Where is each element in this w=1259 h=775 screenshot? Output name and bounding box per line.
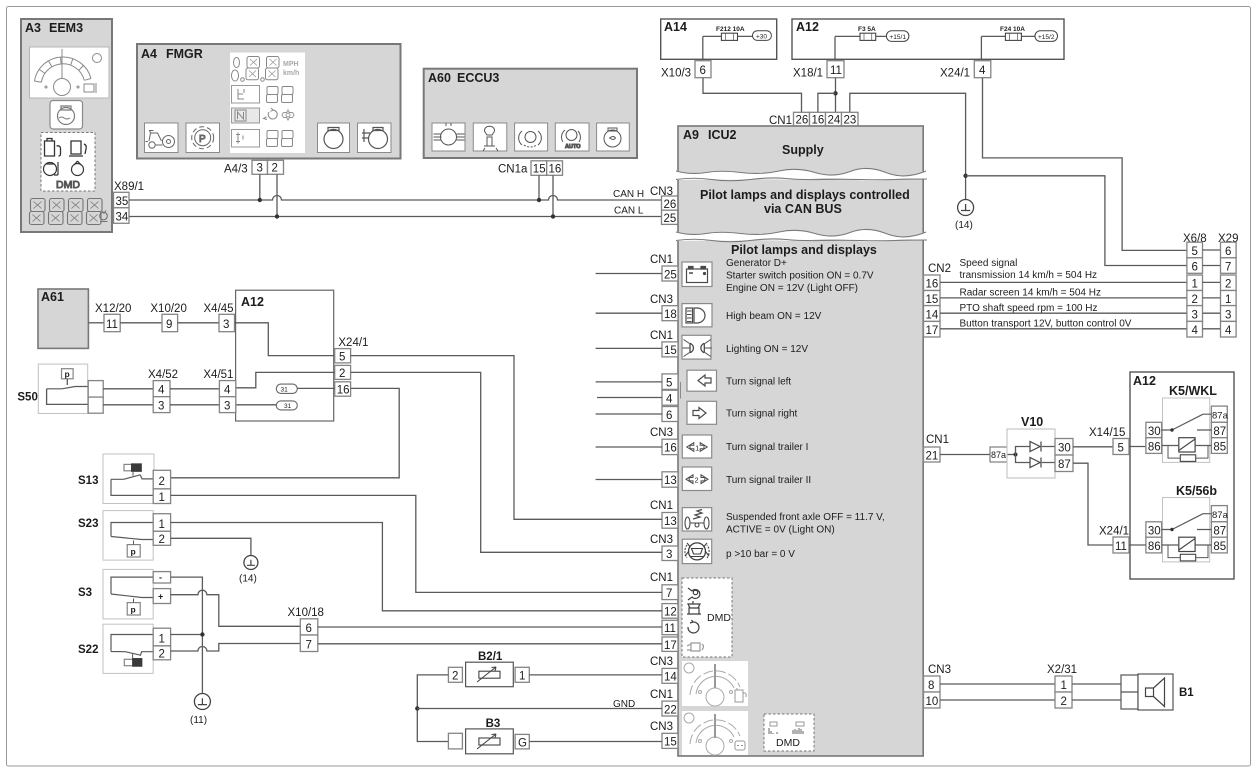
svg-text:7: 7 [306, 640, 312, 652]
relay cell frame [1163, 398, 1210, 462]
svg-text:B3: B3 [486, 718, 501, 730]
tear band 1 [676, 168, 926, 181]
parallel resistor [1180, 554, 1195, 561]
svg-text:X4/51: X4/51 [203, 369, 233, 381]
svg-text:F24 10A: F24 10A [1000, 26, 1025, 33]
wire X2/31-1 to B1 [1072, 683, 1121, 685]
B3 connector box [448, 733, 462, 749]
wire S22-1 to ground line [171, 634, 203, 636]
svg-text:16: 16 [926, 279, 939, 291]
svg-text:Generator D+: Generator D+ [726, 258, 787, 269]
pin 30 [1146, 522, 1162, 537]
X6/8 pin 3 [1187, 306, 1203, 322]
S23 contact [111, 523, 153, 540]
svg-text:3: 3 [223, 319, 229, 331]
CN1 pin 25 battery [662, 266, 678, 281]
svg-text:87: 87 [1213, 426, 1226, 438]
wire X24/1-16 to S13-2 [171, 388, 400, 477]
svg-text:CN1: CN1 [650, 254, 673, 266]
X2/31 pin 2 [1055, 692, 1072, 708]
S13 pin 2 [153, 470, 170, 489]
svg-text:CN1: CN1 [650, 330, 673, 342]
junction on pin24 wire [833, 91, 837, 95]
suspended axle icon [682, 508, 711, 531]
svg-text:A12: A12 [796, 20, 819, 34]
S3 pin minus [153, 572, 170, 583]
svg-text:26: 26 [796, 115, 809, 127]
junction A4/3-3 [258, 198, 262, 202]
svg-text:+15/2: +15/2 [1038, 34, 1055, 41]
S50 switch contact [47, 387, 89, 389]
svg-text:DMD: DMD [707, 612, 731, 624]
wire X18/1-11 down to CN1-24 [835, 78, 837, 113]
wire to CN1-25 [596, 273, 662, 275]
svg-text:6: 6 [666, 410, 672, 422]
wire X4/52 to X4/51 [170, 389, 219, 405]
wire CN2-16 to X6/8-1 [940, 281, 1187, 283]
A3 DMD dashed box [41, 133, 95, 192]
ground symbol (14) top [958, 200, 974, 216]
branch right to X6/8-6 [966, 176, 1187, 266]
svg-text:(14): (14) [239, 574, 257, 585]
svg-text:15: 15 [664, 737, 677, 749]
wire S13-1 to CN1-7 [171, 495, 662, 592]
X4/45 pin 3 [219, 314, 235, 331]
fuel gauge display [682, 661, 748, 706]
X10/3 pin 6 [695, 61, 711, 78]
svg-text:A12: A12 [241, 295, 264, 309]
svg-text:X24/1: X24/1 [338, 337, 368, 349]
svg-text:10: 10 [926, 696, 939, 708]
svg-text:transmission 14 km/h = 504 Hz: transmission 14 km/h = 504 Hz [960, 270, 1098, 281]
sensor B3 body [466, 729, 514, 754]
sensor B2/1 body [466, 662, 514, 687]
svg-text:4: 4 [1192, 325, 1199, 337]
wire S22-2 to X10/18-7 [171, 644, 301, 652]
wire CN1a-15 to CAN H [538, 175, 540, 200]
S22 pin 2 [153, 646, 170, 660]
svg-text:25: 25 [664, 270, 677, 282]
relay box A12 left [236, 290, 334, 421]
CN1a pin 16 [547, 161, 563, 176]
svg-text:ACTIVE = 0V (Light ON): ACTIVE = 0V (Light ON) [726, 525, 835, 536]
S23 p symbol [127, 545, 140, 557]
A4 tractor icon box [145, 123, 179, 153]
wire X24/1-11 to 86 [1129, 544, 1146, 546]
svg-text:24: 24 [828, 115, 841, 127]
CN3 pin 18 [662, 306, 678, 321]
A3 coolant icon box [50, 101, 83, 130]
pressure switch S50 [17, 364, 88, 413]
wire to CN3-18 [596, 312, 662, 314]
wire to pin 6 [596, 413, 662, 415]
wire B3-G to CN3-15 [529, 741, 662, 743]
CN1 pin 7 [662, 585, 678, 600]
svg-text:A14: A14 [664, 20, 687, 34]
X89/1 pin 34 [114, 208, 130, 224]
svg-text:P: P [199, 134, 206, 145]
pin 87 [1211, 422, 1227, 437]
svg-text:S22: S22 [78, 644, 98, 656]
svg-text:CN2: CN2 [928, 263, 951, 275]
svg-text:87a: 87a [1212, 510, 1229, 521]
svg-text:via CAN BUS: via CAN BUS [764, 202, 842, 216]
svg-text:86: 86 [1148, 441, 1161, 453]
svg-text:X24/1: X24/1 [1099, 526, 1129, 538]
wire B2/1-1 to CN3-14 [529, 674, 662, 676]
CN3 pin 10 [924, 692, 941, 708]
svg-text:1: 1 [1061, 680, 1067, 692]
svg-text:6: 6 [700, 65, 706, 77]
svg-text:G: G [518, 737, 527, 749]
CN1a pin 15 [531, 161, 547, 176]
svg-text:DMD: DMD [56, 179, 80, 191]
svg-text:23: 23 [844, 115, 857, 127]
svg-text:K5/WKL: K5/WKL [1169, 384, 1217, 398]
display module A4 [137, 44, 401, 159]
svg-text:km/h: km/h [283, 70, 299, 77]
CN3 pin 25 [662, 210, 679, 224]
CAN H wire [129, 196, 662, 200]
wire X10/18-7 to CN1-17 [318, 643, 662, 645]
svg-text:-: - [159, 572, 162, 582]
ECU block A3 [21, 19, 112, 232]
X89/1 pin 35 [114, 192, 130, 208]
+15/1 terminal [886, 31, 909, 42]
temp gauge display [682, 711, 748, 755]
S50 connector box upper [88, 381, 103, 398]
X29 pin 6 [1221, 242, 1237, 258]
svg-text:MPH: MPH [283, 61, 299, 68]
svg-text:6: 6 [1192, 262, 1198, 274]
svg-text:16: 16 [812, 115, 825, 127]
CN2 pin 14 [924, 306, 941, 322]
svg-text:X10/3: X10/3 [661, 68, 691, 80]
svg-text:2: 2 [159, 649, 165, 661]
svg-text:6: 6 [1225, 246, 1231, 258]
S50 connector box lower [88, 397, 103, 413]
branch to CN1-16 [818, 93, 836, 112]
B2/1 thermistor symbol [479, 671, 500, 678]
tear band 2 [676, 229, 926, 242]
svg-text:+30: +30 [756, 34, 767, 41]
svg-text:2: 2 [1061, 696, 1067, 708]
B1 connector cells [1121, 675, 1138, 709]
wire pin2 internal jog to X4/51-4 [235, 372, 335, 387]
oval 31 b [276, 401, 297, 410]
svg-text:CAN H: CAN H [613, 189, 644, 200]
svg-text:16: 16 [337, 384, 350, 396]
relay box A12 right [1130, 372, 1234, 579]
svg-text:AUTO: AUTO [565, 144, 581, 150]
junction S22-1 ground [200, 632, 204, 636]
fuse box A14 [661, 19, 777, 59]
X24/1 pin 5 [335, 349, 351, 363]
wire V10-87 down to X24/1-11 [1073, 463, 1113, 545]
S3 p symbol [127, 603, 140, 615]
pin 86 [1146, 537, 1162, 553]
svg-text:K5/56b: K5/56b [1176, 484, 1217, 498]
svg-text:16: 16 [549, 164, 562, 176]
relay coil [1179, 438, 1195, 452]
svg-text:86: 86 [1148, 541, 1161, 553]
svg-text:87: 87 [1213, 525, 1226, 537]
svg-text:ICU2: ICU2 [708, 128, 737, 142]
svg-text:S50: S50 [17, 392, 37, 404]
CN3 pin 8 [924, 676, 941, 692]
svg-text:5: 5 [666, 378, 672, 390]
svg-text:B1: B1 [1179, 687, 1194, 699]
wire X2/31-2 to B1 [1072, 699, 1121, 701]
DMD dashed box [682, 578, 732, 657]
wire to pin 13 [596, 479, 662, 481]
battery icon [682, 262, 712, 287]
A4 lamp icon box 2 [358, 123, 392, 153]
svg-text:A9: A9 [683, 128, 699, 142]
X24/1 pin 16 [335, 382, 351, 396]
svg-text:16: 16 [664, 443, 677, 455]
svg-text:85: 85 [1213, 441, 1226, 453]
svg-text:X89/1: X89/1 [114, 181, 144, 193]
svg-text:Supply: Supply [782, 143, 824, 157]
wire CN1-23 up right to ground and X6/8 [850, 93, 966, 200]
CN3 pin 26 [662, 196, 679, 210]
X24/1 pin 2 [335, 365, 351, 379]
CN3 pin 15 [662, 733, 678, 748]
junction CN1a-15 [537, 198, 541, 202]
CN1 pin 16 [810, 112, 826, 126]
svg-text:X10/18: X10/18 [288, 607, 324, 619]
svg-text:30: 30 [1148, 426, 1161, 438]
svg-text:13: 13 [664, 475, 677, 487]
pin 4 [662, 390, 678, 405]
A4/3 pin 3 [252, 160, 268, 174]
svg-text:14: 14 [926, 309, 939, 321]
svg-text:21: 21 [926, 450, 939, 462]
wire A61 to X12/20 [88, 322, 104, 324]
V10 outline [1007, 429, 1055, 478]
svg-text:3: 3 [257, 163, 263, 175]
pin 87a [1211, 506, 1227, 522]
wire F24 to X24/1 pin 4 [980, 36, 982, 60]
svg-text:S13: S13 [78, 475, 98, 487]
svg-text:11: 11 [106, 319, 118, 331]
svg-text:2: 2 [452, 671, 458, 683]
svg-text:85: 85 [1213, 541, 1226, 553]
S23 pin 1 [153, 514, 170, 532]
svg-text:15: 15 [926, 294, 939, 306]
svg-text:A60: A60 [428, 71, 451, 85]
CN1 pin 21 [924, 447, 941, 462]
svg-text:S23: S23 [78, 518, 98, 530]
svg-text:87: 87 [1058, 459, 1071, 471]
svg-text:11: 11 [830, 65, 842, 77]
svg-text:(14): (14) [955, 220, 973, 231]
svg-text:1: 1 [519, 671, 525, 683]
X29 pin 2 [1221, 275, 1237, 291]
ground symbol (14) left [244, 556, 258, 570]
switch blade 30-87a [1162, 514, 1212, 530]
diode 1 [1030, 442, 1041, 452]
svg-text:p: p [131, 605, 136, 615]
A3 gauge display [30, 47, 110, 98]
X29 pin 1 [1221, 291, 1237, 306]
DMD dashed box 2 [764, 714, 814, 751]
speaker B1 body [1138, 674, 1173, 710]
S22 lamp icon [124, 659, 133, 665]
S50 p symbol [62, 369, 74, 379]
svg-text:35: 35 [116, 196, 129, 208]
A4 central display [230, 53, 305, 154]
svg-text:X24/1: X24/1 [940, 68, 970, 80]
pin 5 turn left [662, 374, 678, 390]
svg-text:87a: 87a [1212, 411, 1229, 422]
wire CN1-21 to 87a [940, 454, 990, 456]
svg-text:FMGR: FMGR [166, 47, 203, 61]
hazard switch S13 [78, 454, 154, 504]
X10/20 pin 9 [162, 314, 178, 331]
X29 pin 4 [1221, 321, 1237, 337]
CN1 pin 12 [662, 604, 678, 619]
wire X4/51-3 to oval31b [235, 404, 277, 406]
pin 87 [1211, 522, 1227, 537]
svg-text:Speed signal: Speed signal [960, 258, 1018, 269]
svg-text:1: 1 [159, 519, 165, 531]
pin 6 [662, 407, 678, 422]
svg-text:13: 13 [664, 516, 677, 528]
svg-text:F3 5A: F3 5A [858, 26, 876, 33]
CN2 pin 15 [924, 291, 941, 306]
svg-text:3: 3 [224, 401, 230, 413]
svg-text:87a: 87a [991, 450, 1006, 460]
wire CN3-10 to X2/31-2 [940, 699, 1055, 701]
wire A4/3-3 to CAN H [259, 174, 261, 200]
svg-text:X12/20: X12/20 [95, 303, 131, 315]
X4/52 pin 3 [153, 397, 170, 413]
svg-text:15: 15 [533, 164, 546, 176]
svg-text:X10/20: X10/20 [150, 303, 186, 315]
svg-text:+15/1: +15/1 [890, 34, 907, 41]
svg-text:15: 15 [664, 345, 677, 357]
svg-text:CN1: CN1 [926, 434, 949, 446]
svg-text:30: 30 [1058, 443, 1071, 455]
wire 11 to 9 [120, 322, 162, 324]
X29 pin 7 [1221, 258, 1237, 274]
relay coil [1179, 537, 1195, 551]
CN1 pin 26 [794, 112, 810, 126]
svg-text:A12: A12 [1133, 374, 1156, 388]
ground symbol (11) [194, 694, 210, 710]
wire X4/45-3 into A12 to pin5 [235, 323, 335, 356]
svg-text:Turn signal left: Turn signal left [726, 377, 791, 388]
junction above ground 14 [963, 174, 967, 178]
turn signal left icon [687, 370, 717, 391]
svg-text:Engine ON = 12V (Light OFF): Engine ON = 12V (Light OFF) [726, 283, 858, 294]
CN2 pin 17 [924, 321, 941, 337]
svg-text:High beam ON = 12V: High beam ON = 12V [726, 311, 822, 322]
X12/20 pin 11 [104, 314, 120, 331]
instrument cluster A9 ICU2 body [678, 126, 923, 756]
wire CN2-17 to X6/8-4 [940, 328, 1187, 330]
svg-text:2: 2 [159, 534, 165, 546]
CN3 pin 16 trailer I [662, 439, 678, 454]
control unit A61 [38, 289, 88, 348]
CN1 pin 13 axle [662, 513, 678, 529]
svg-text:CN3: CN3 [650, 294, 673, 306]
svg-text:7: 7 [666, 588, 672, 600]
svg-text:Radar screen 14 km/h = 504 Hz: Radar screen 14 km/h = 504 Hz [960, 288, 1101, 299]
wire oval31a to pin16 [297, 387, 334, 389]
V10 pin 30 [1055, 439, 1073, 456]
svg-text:2: 2 [159, 476, 165, 488]
svg-text:A3: A3 [25, 21, 41, 35]
S22 contact [111, 635, 153, 656]
X10/18 pin 6 [300, 619, 318, 635]
svg-text:4: 4 [979, 65, 986, 77]
A60 icon boxes [432, 123, 629, 151]
svg-text:1: 1 [1192, 279, 1198, 291]
S3 contact [111, 577, 153, 597]
gear row 3 [232, 130, 260, 148]
switch S23 [78, 511, 153, 560]
svg-text:26: 26 [664, 199, 677, 211]
X18/1 pin 11 [827, 61, 844, 78]
S13 lamp icon [124, 464, 132, 470]
7seg 1.8.8 [232, 58, 240, 81]
trailer I icon [682, 435, 711, 458]
wire to CN3-16 [596, 446, 662, 448]
CN2 pin 16 [924, 275, 941, 291]
svg-text:X4/52: X4/52 [148, 369, 178, 381]
svg-text:X2/31: X2/31 [1047, 664, 1077, 676]
svg-text:X18/1: X18/1 [793, 68, 823, 80]
svg-text:5: 5 [1118, 443, 1124, 455]
S13 contact [111, 475, 153, 496]
svg-text:3: 3 [158, 401, 164, 413]
svg-text:CN3: CN3 [928, 664, 951, 676]
svg-text:CAN L: CAN L [614, 206, 644, 217]
svg-text:31: 31 [281, 386, 289, 393]
pin 85 [1211, 438, 1227, 454]
S22 pin 1 [153, 628, 170, 646]
svg-text:8: 8 [928, 680, 934, 692]
V10 pin 87 [1055, 455, 1073, 472]
X6/8 pin 6 [1187, 258, 1203, 274]
svg-text:CN3: CN3 [650, 427, 673, 439]
X6/8 pin 1 [1187, 275, 1203, 291]
wire S3-plus to X10/18-6 [171, 590, 301, 626]
svg-text:X14/15: X14/15 [1089, 427, 1125, 439]
svg-text:25: 25 [664, 213, 677, 225]
svg-text:(11): (11) [190, 715, 207, 726]
pin 86 [1146, 438, 1162, 454]
svg-text:11: 11 [1115, 541, 1127, 553]
svg-text:31: 31 [284, 403, 292, 410]
svg-text:Pilot lamps and displays contr: Pilot lamps and displays controlled [700, 188, 910, 202]
svg-text:3: 3 [1192, 309, 1198, 321]
svg-text:+: + [158, 592, 163, 602]
turn signal right icon [687, 401, 717, 424]
svg-text:2: 2 [1192, 294, 1198, 306]
wire X14/15-5 to 86 [1129, 446, 1146, 448]
svg-text:B2/1: B2/1 [478, 651, 503, 663]
svg-text:ECCU3: ECCU3 [457, 71, 499, 85]
svg-text:1: 1 [1225, 294, 1231, 306]
GND wire to CN1-22 [417, 708, 662, 710]
svg-text:A4: A4 [141, 47, 157, 61]
CN1 pin 17 [662, 637, 678, 651]
svg-text:3: 3 [666, 549, 672, 561]
